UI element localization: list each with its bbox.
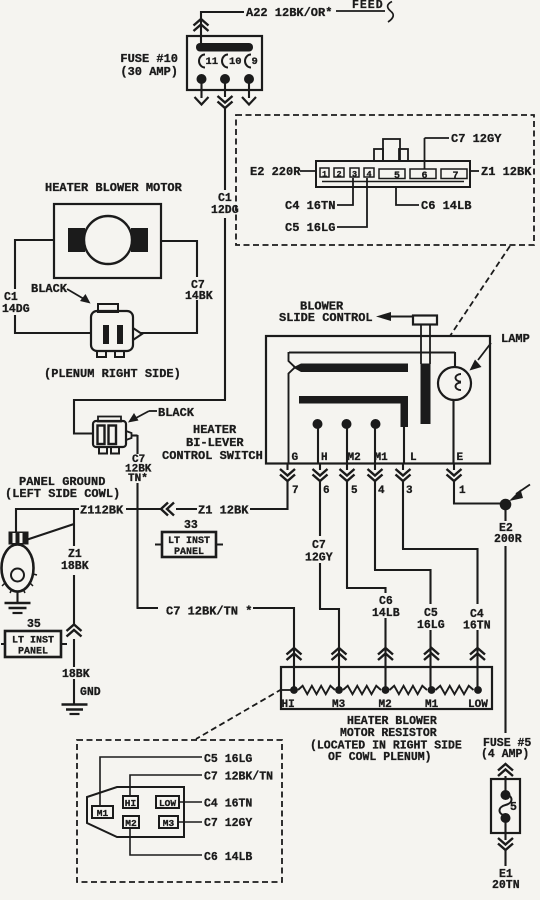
switch G contact notch [289,352,296,464]
svg-text:L: L [410,452,417,464]
resistor box [281,667,492,709]
connector chevron on A22 wire [194,19,209,26]
wire M2 / C6 14LB [346,481,348,588]
svg-text:5: 5 [510,801,517,814]
fuse #5 dots [501,790,511,800]
svg-text:10: 10 [229,56,242,68]
motor connector foot left [97,351,106,357]
svg-text:C5 16LG: C5 16LG [285,221,335,235]
svg-text:Z112BK: Z112BK [80,504,124,518]
switch connector chevrons [280,469,295,476]
switch wiper rail [289,352,455,354]
label Z1 12BK pin7 [469,170,479,172]
svg-text:GND: GND [80,686,101,699]
motor brush left [68,228,85,252]
svg-text:2: 2 [336,170,341,180]
svg-text:HI: HI [125,798,136,809]
lamp wires [454,352,456,368]
connector C1 body [316,161,470,187]
motor box [54,204,161,278]
svg-text:BLACK: BLACK [31,282,68,296]
svg-text:200R: 200R [494,533,522,546]
fuse #5 stub [504,776,506,780]
wire Z1 18BK [73,528,75,546]
svg-text:(30 AMP): (30 AMP) [120,65,178,79]
label C6 14LB pin5 [396,187,419,205]
dashed leader to detail box [196,689,282,739]
dashed detail box resistor connector [77,740,282,882]
svg-text:PANEL: PANEL [18,647,48,658]
fuse #5 element [504,779,506,791]
svg-text:SLIDE CONTROL: SLIDE CONTROL [279,311,373,325]
svg-text:MOTOR RESISTOR: MOTOR RESISTOR [340,727,437,740]
connector C1 pins 5-7 [379,169,405,179]
leader C7 12BK/TN (HI) [130,775,202,796]
svg-text:C5 16LG: C5 16LG [204,753,252,766]
svg-text:14BK: 14BK [185,290,213,303]
bi-level connector tab [98,417,121,422]
wire A22 12BK/OR feed [201,11,244,13]
ground eyelet cap [9,532,29,545]
ground eyelet body [2,545,34,592]
resistor element [281,689,294,691]
arrow out terminal 9 [242,97,256,105]
switch L terminal wire [403,427,405,464]
fuse output stubs [200,83,202,98]
svg-text:G: G [292,452,299,464]
motor connector body [91,311,133,351]
dashed leader to switch [450,246,510,336]
cavity M1 [92,806,113,818]
connector C1 pins 1-4 [320,168,329,177]
label C5 16LG pin4 [337,178,367,227]
svg-text:12DG: 12DG [211,204,239,217]
svg-text:5: 5 [394,171,400,182]
svg-text:M2: M2 [125,818,137,829]
motor connector tab [98,304,118,312]
svg-text:18BK: 18BK [62,668,90,681]
motor armature circle [84,216,132,264]
svg-text:E: E [457,452,464,464]
svg-text:M2: M2 [379,699,392,711]
ground symbol (panel ground) [5,602,31,605]
wire L / C4 16TN [402,481,404,549]
svg-text:5: 5 [351,485,358,497]
resistor connector outline [87,787,184,837]
svg-text:4: 4 [378,485,385,497]
svg-text:LT INST: LT INST [12,636,54,647]
svg-text:A22 12BK/OR*: A22 12BK/OR* [246,6,332,20]
svg-text:BI-LEVER: BI-LEVER [186,436,244,450]
bi-level connector nub [126,431,132,440]
svg-text:C7 12GY: C7 12GY [204,817,252,830]
lamp [438,367,471,400]
svg-text:TN*: TN* [128,473,148,485]
svg-text:C7 12GY: C7 12GY [451,132,502,146]
connector chevron terminal 10 [218,96,233,103]
label C7 12GY pin6 [424,138,426,169]
svg-text:BLACK: BLACK [158,406,195,420]
svg-text:CONTROL SWITCH: CONTROL SWITCH [162,449,263,463]
wire E2 200R down [504,510,506,521]
svg-text:16LG: 16LG [417,619,445,632]
svg-text:12GY: 12GY [305,552,333,565]
svg-text:M3: M3 [332,699,346,711]
bi-level connector body [93,421,126,447]
svg-text:C7 12BK/TN *: C7 12BK/TN * [166,605,252,619]
svg-text:6: 6 [421,171,427,182]
svg-text:M3: M3 [163,818,175,829]
connector chevron below fuse 5 [504,833,506,840]
svg-text:7: 7 [452,171,458,182]
svg-text:PANEL: PANEL [174,547,204,558]
connector C1 bottom channel [322,181,464,183]
label FEED with underline [336,10,385,12]
svg-text:FEED: FEED [352,0,384,12]
svg-text:C7: C7 [312,539,326,552]
svg-text:C6 14LB: C6 14LB [204,851,252,864]
svg-text:(LEFT SIDE COWL): (LEFT SIDE COWL) [5,487,120,501]
svg-text:7: 7 [292,485,299,497]
wire M1 / C5 16LG [374,481,376,570]
svg-text:18BK: 18BK [61,560,89,573]
svg-text:H: H [321,452,328,464]
svg-text:LT INST: LT INST [168,536,210,547]
resistor input chevrons [287,648,302,655]
wire C1 jog to bi-level connector [74,399,226,401]
svg-text:M1: M1 [425,699,439,711]
bi-level connector windows [98,426,105,445]
svg-text:HEATER BLOWER MOTOR: HEATER BLOWER MOTOR [45,181,183,195]
fuse terminal dots [197,74,207,84]
svg-text:20TN: 20TN [492,879,520,892]
svg-text:6: 6 [323,485,330,497]
leader C5 16LG (M1) [100,757,202,806]
fuse terminal hooks [199,55,205,68]
fuse #10 box [187,36,262,90]
leader C4 16TN (LOW) [179,801,202,803]
svg-text:LOW: LOW [468,699,488,711]
svg-text:LAMP: LAMP [501,332,530,346]
wire G to Z1 [286,481,288,510]
connector chevron above fuse 5 [498,764,513,771]
svg-text:FUSE #10: FUSE #10 [120,52,178,66]
svg-text:16TN: 16TN [463,620,491,633]
svg-text:M2: M2 [348,452,361,464]
dashed detail box connector C1 [236,115,534,245]
arrow out terminal 11 [195,97,209,105]
slider stem [420,324,422,364]
cavity M3 [159,816,178,828]
wire C7 12BK/TN horizontal [137,607,159,609]
bi-level connector feet [99,447,107,454]
svg-text:11: 11 [206,56,219,68]
svg-text:OF COWL PLENUM): OF COWL PLENUM) [328,751,432,764]
svg-text:35: 35 [27,618,41,631]
svg-text:1: 1 [459,485,466,497]
motor lead C7 14BK [161,240,197,242]
svg-text:HI: HI [282,699,295,711]
leader C7 12GY (M3) [178,821,202,823]
wire C7 12BK/TN vertical [132,434,138,436]
svg-text:M1: M1 [375,452,389,464]
connector chevron Z1 18BK [67,625,82,632]
svg-text:C4 16TN: C4 16TN [204,798,252,811]
svg-text:14LB: 14LB [372,607,400,620]
svg-text:M1: M1 [97,808,109,819]
slider handle [413,316,437,325]
motor connector nub [133,328,142,340]
switch box [266,336,490,464]
svg-text:9: 9 [252,56,258,68]
ground eyelet stem [16,591,18,602]
wire E1 20TN [504,850,506,866]
wire to ground eyelet [15,508,17,533]
wire Z1 12BK horizontal [16,508,79,510]
fuse #5 box [491,779,520,833]
switch output stubs [286,464,288,470]
wire C1 12DG vertical [224,108,226,190]
svg-text:14DG: 14DG [2,303,30,316]
switch terminal wires [317,425,319,464]
svg-text:E2 220R: E2 220R [250,165,301,179]
svg-text:HEATER: HEATER [193,423,237,437]
wire H / C7 12GY [319,481,321,536]
motor connector foot right [115,351,124,357]
wire E to splice [453,481,455,504]
connector C1 top tabs [383,139,400,161]
motor connector pin slot left [103,325,109,344]
fuse #10 bus bar [196,43,253,52]
svg-text:Z1 12BK: Z1 12BK [198,504,249,518]
svg-text:C6 14LB: C6 14LB [421,199,471,213]
svg-text:LOW: LOW [159,798,176,809]
svg-text:(4 AMP): (4 AMP) [481,748,529,761]
cavity LOW [156,796,179,808]
svg-text:C4 16TN: C4 16TN [285,199,335,213]
svg-text:3: 3 [406,485,413,497]
svg-text:33: 33 [184,519,198,532]
ground symbol (GND) [62,703,88,706]
arrow to slide control [390,316,412,318]
label C4 16TN pin3 [337,178,353,205]
svg-text:Z1 12BK: Z1 12BK [481,165,532,179]
switch contact bar 2 L-shaped [299,396,408,427]
cavity M2 [123,816,139,828]
svg-text:(PLENUM RIGHT SIDE): (PLENUM RIGHT SIDE) [44,367,181,381]
splice E2 [500,499,512,511]
switch contact bar 1 [293,364,408,373]
svg-text:C7 12BK/TN: C7 12BK/TN [204,771,273,784]
svg-text:1: 1 [322,170,327,180]
motor brush right [131,228,148,252]
resistor terminal dots [290,686,298,694]
connector chevron Z1 [161,503,168,516]
switch contact dots H M2 M1 [313,419,323,429]
motor connector pin slot right [117,325,123,344]
leader C6 14LB (M2) [130,828,202,855]
motor lead C1 14DG [15,239,54,241]
cavity HI [123,796,138,808]
